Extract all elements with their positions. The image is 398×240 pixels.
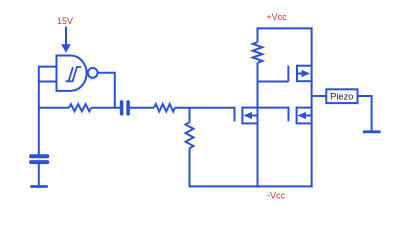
wire: right vertical (Q1 drain to Q3 drain chain) bbox=[311, 27, 313, 187]
transistor Q1 (P-channel, arrow right) bbox=[288, 65, 311, 83]
wire: gate output down to rail bbox=[97, 73, 115, 108]
ground (left) bbox=[30, 185, 48, 188]
wire: rail R2 to Q2 gate bbox=[175, 107, 235, 109]
supply arrow to gate bbox=[61, 27, 71, 53]
wire: gate top input stub bbox=[39, 66, 57, 68]
wire: R4 to negative rail bbox=[189, 148, 191, 187]
piezo transducer box bbox=[326, 89, 357, 103]
wire: positive supply rail bbox=[257, 27, 313, 29]
schmitt NAND gate U1 bbox=[57, 56, 98, 91]
wire: piezo to ground bbox=[357, 96, 372, 131]
wire: output node to piezo bbox=[312, 95, 326, 97]
resistor R3 (drain load) bbox=[253, 42, 263, 63]
wire: +Vcc down to R3 bbox=[257, 27, 259, 42]
ground (right) bbox=[363, 130, 381, 133]
wire: R3 down through Q2 drain to negative rail bbox=[257, 63, 259, 188]
wire: C1 to ground bbox=[38, 164, 40, 186]
capacitor C1 (timing) bbox=[31, 156, 47, 162]
wire: Q1 gate connection bbox=[257, 81, 289, 83]
wire: Q2 drain node to Q3 gate bbox=[258, 107, 289, 109]
svg-text:+Vcc: +Vcc bbox=[266, 12, 287, 22]
capacitor C2 (series coupling) bbox=[122, 102, 129, 114]
wire: rail from node to R1 bbox=[38, 107, 69, 109]
wire: rail C2 to R2 bbox=[130, 107, 154, 109]
wire: left vertical feedback node bbox=[38, 66, 40, 155]
wire: rail R1 to C2 bbox=[91, 107, 120, 109]
wire: negative supply rail bbox=[189, 185, 313, 187]
wire: branch down to R4 bbox=[189, 108, 191, 123]
transistor Q3 (N-channel right, arrow left) bbox=[289, 107, 312, 125]
svg-text:-Vcc: -Vcc bbox=[267, 191, 286, 201]
wire: gate bottom input stub bbox=[39, 81, 57, 83]
resistor R1 (feedback) bbox=[69, 104, 91, 111]
svg-text:15V: 15V bbox=[57, 16, 73, 26]
transistor Q2 (N-channel left, arrow left) bbox=[235, 107, 258, 125]
resistor R2 (series) bbox=[154, 104, 175, 112]
resistor R4 (gate pulldown) bbox=[186, 122, 194, 148]
svg-text:Piezo: Piezo bbox=[330, 92, 353, 102]
